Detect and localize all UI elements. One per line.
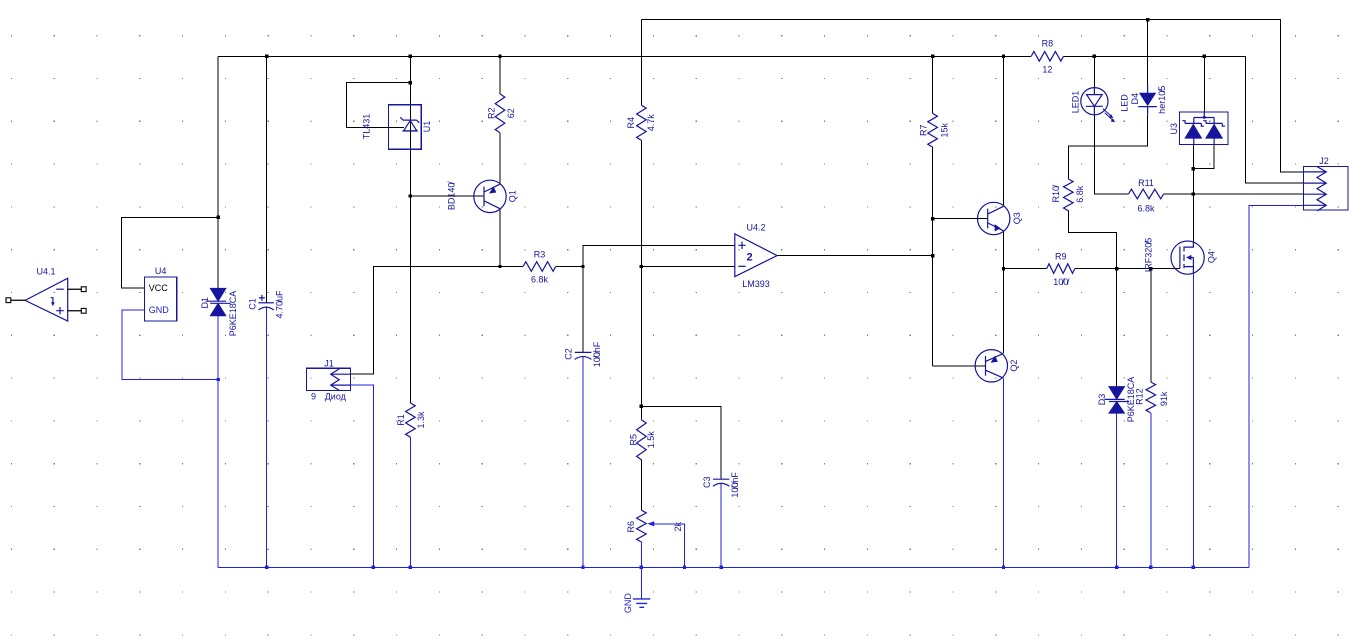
svg-text:15k: 15k bbox=[939, 122, 949, 137]
wire R2 bottom to Q1 emitter bbox=[499, 133, 501, 184]
wire rail corner down to D1 anode bbox=[217, 56, 219, 288]
potentiometer R6 2k bbox=[626, 510, 683, 542]
junction wiper/ground rail bbox=[683, 566, 686, 569]
connector J1 (9 Diode) bbox=[306, 358, 350, 401]
resistor R12 91k bbox=[1134, 382, 1169, 413]
wire R7 bottom to Q3 base node bbox=[932, 147, 934, 219]
svg-text:10̸0̸nF: 10̸0̸nF bbox=[592, 341, 602, 367]
junction C1/ground rail bbox=[265, 566, 268, 569]
wire output node to Q2 collector bbox=[1003, 269, 1005, 353]
capacitor C2 100nF bbox=[564, 341, 602, 367]
wire rail after R8 to J2 pin2 bbox=[1064, 56, 1304, 183]
svg-text:6.8k: 6.8k bbox=[531, 275, 549, 285]
wire R9 right to Q4 gate bbox=[1075, 268, 1180, 270]
wire gate node down to R12 bbox=[1150, 269, 1152, 382]
svg-text:D3: D3 bbox=[1097, 394, 1107, 406]
wire R1 bottom to ground rail bbox=[409, 437, 411, 567]
junction C3/ground rail bbox=[719, 566, 722, 569]
svg-text:10̸0̸nF: 10̸0̸nF bbox=[730, 472, 740, 498]
junction R1/ground rail bbox=[409, 566, 412, 569]
comparator U4.2 LM393 bbox=[735, 222, 777, 289]
dual schottky diode U3 bbox=[1169, 112, 1228, 144]
svg-text:BD140̸: BD140̸ bbox=[446, 181, 456, 211]
wire drain node to J2 pin3 bbox=[1193, 193, 1303, 195]
svg-text:62: 62 bbox=[506, 108, 516, 118]
svg-text:LED1: LED1 bbox=[1071, 91, 1081, 114]
connector J2 bbox=[1303, 156, 1348, 211]
wire node to R9 left bbox=[1004, 268, 1047, 270]
wire J1 pin2 to ground rail bbox=[351, 385, 374, 567]
diode D4 her105 bbox=[1120, 85, 1167, 115]
svg-text:10̸0̸: 10̸0̸ bbox=[1053, 277, 1070, 287]
svg-text:Q4: Q4 bbox=[1206, 251, 1216, 263]
wire R4 bottom to - input node bbox=[640, 140, 642, 266]
resistor R10 6.8k bbox=[1051, 179, 1085, 211]
svg-text:D1: D1 bbox=[200, 297, 210, 309]
LED LED1 bbox=[1071, 88, 1116, 123]
junction rail/LED1 bbox=[1093, 55, 1096, 58]
svg-text:R1: R1 bbox=[396, 414, 406, 426]
wire D4 cathode over to R10 top bbox=[1068, 115, 1147, 179]
wire R10 bottom to gate node bbox=[1068, 211, 1116, 269]
wire node down to C2 top bbox=[582, 267, 584, 353]
junction rail/R2 bbox=[498, 55, 501, 58]
junction R12 gate node bbox=[1149, 267, 1152, 270]
wire ground rail up to J2 pin4 bbox=[1249, 205, 1303, 567]
wire node to Q3 base bbox=[933, 218, 988, 220]
svg-text:her10̸5: her10̸5 bbox=[1157, 86, 1167, 114]
resistor R1 1.3k bbox=[396, 403, 426, 437]
svg-text:1.3k: 1.3k bbox=[416, 411, 426, 429]
IC power block U4 bbox=[144, 266, 176, 321]
svg-text:U4.1: U4.1 bbox=[36, 266, 55, 276]
svg-text:R11: R11 bbox=[1138, 178, 1154, 188]
resistor R2 62 bbox=[487, 94, 517, 133]
junction TL431/Q1 base bbox=[409, 194, 412, 197]
junction U4 GND/D1 ground bbox=[216, 378, 219, 381]
capacitor C3 100nF bbox=[702, 472, 740, 498]
wire Q3 emitter to output node bbox=[1003, 231, 1005, 268]
junction Q3 base node bbox=[931, 217, 934, 220]
wire J1 pin1 up to R3 left node bbox=[351, 267, 524, 375]
wire top rail to D4 anode bbox=[1147, 20, 1149, 85]
junction top rail/D4 bbox=[1146, 18, 1149, 21]
wire C3 bottom to ground rail bbox=[720, 483, 722, 567]
junction D3/ground rail bbox=[1115, 566, 1118, 569]
svg-text:U1: U1 bbox=[422, 121, 432, 133]
wire top rail corner down to R4 top bbox=[640, 20, 642, 106]
junction R6/GND symbol bbox=[640, 566, 643, 569]
wire to Q2 base bbox=[933, 365, 986, 367]
wire U4 GND pin to ground net bbox=[122, 310, 218, 379]
svg-text:U4.2: U4.2 bbox=[746, 222, 765, 232]
wire rail to Q3 collector bbox=[1003, 56, 1005, 206]
wire D1 cathode down to ground rail bbox=[217, 316, 219, 567]
svg-text:J2: J2 bbox=[1319, 156, 1329, 166]
wire U3 right anode to node bbox=[1193, 144, 1214, 168]
junction rail/U3 bbox=[1203, 55, 1206, 58]
wire R11 right to drain node bbox=[1164, 193, 1194, 195]
junction comparator output bbox=[931, 254, 934, 257]
junction TL431 ref bbox=[409, 81, 412, 84]
junction Q2/ground rail bbox=[1002, 566, 1005, 569]
junction J1/ground rail bbox=[372, 566, 375, 569]
junction R10/D3 gate node bbox=[1115, 267, 1118, 270]
transistor Q3 bbox=[978, 202, 1022, 234]
svg-text:6.8k: 6.8k bbox=[1137, 203, 1155, 213]
junction rail/R7 bbox=[931, 55, 934, 58]
junction rail/Q3 collector bbox=[1002, 55, 1005, 58]
wire rail down to C1 plus plate bbox=[266, 56, 268, 302]
svg-text:U3: U3 bbox=[1169, 123, 1179, 135]
wire U3 anode node down to Q4 drain bbox=[1192, 144, 1194, 241]
svg-text:Q1: Q1 bbox=[507, 190, 517, 202]
wire ground rail to GND symbol bbox=[640, 567, 642, 599]
svg-text:IRF320̸5: IRF320̸5 bbox=[1143, 238, 1153, 273]
svg-text:U4: U4 bbox=[155, 266, 167, 276]
svg-text:C1: C1 bbox=[247, 298, 257, 310]
junction R12/ground rail bbox=[1149, 566, 1152, 569]
svg-text:9: 9 bbox=[311, 391, 316, 401]
svg-text:LED: LED bbox=[1120, 94, 1130, 112]
wire node up to comparator + input bbox=[583, 245, 735, 266]
svg-text:91k: 91k bbox=[1159, 391, 1169, 406]
svg-text:C2: C2 bbox=[564, 348, 574, 360]
svg-text:2k: 2k bbox=[673, 522, 683, 532]
junction U3 anodes bbox=[1192, 167, 1195, 170]
wire TL431 node to Q1 base bbox=[410, 195, 484, 197]
wire node to C3 top bbox=[641, 406, 721, 479]
svg-text:GND: GND bbox=[623, 593, 633, 614]
svg-text:Диод: Диод bbox=[325, 391, 347, 401]
svg-text:C3: C3 bbox=[702, 477, 712, 489]
svg-text:R3: R3 bbox=[534, 250, 546, 260]
TVS diode D3 P6KE18CA bbox=[1097, 377, 1136, 423]
wire comparator output to R7 net bbox=[777, 255, 933, 257]
transistor Q1 BD140 bbox=[446, 180, 517, 212]
svg-text:12: 12 bbox=[1042, 64, 1052, 74]
svg-text:6.8k: 6.8k bbox=[1075, 185, 1085, 203]
wire LED1 cathode down to R11 left bbox=[1094, 115, 1128, 194]
junction Q3/Q2/R9 bbox=[1002, 267, 1005, 270]
transistor Q2 bbox=[975, 350, 1019, 382]
wire D3 bottom to ground rail bbox=[1116, 413, 1118, 567]
svg-text:LM393: LM393 bbox=[742, 279, 770, 289]
svg-text:R9: R9 bbox=[1055, 252, 1067, 262]
wire node to R5 top bbox=[640, 406, 642, 419]
TVS diode D1 P6KE18CA bbox=[200, 288, 238, 336]
resistor R4 4.7k bbox=[626, 105, 656, 140]
resistor R7 15k bbox=[918, 113, 949, 147]
svg-text:R7: R7 bbox=[918, 124, 928, 136]
wire top rail (R4 top / D4 / J2 pin1 net) bbox=[641, 20, 1303, 172]
junction rail/C1 bbox=[265, 55, 268, 58]
wire ground rail bbox=[218, 566, 1249, 568]
wire - node down to R5/C3 node bbox=[640, 267, 642, 407]
svg-text:J1: J1 bbox=[324, 358, 334, 368]
svg-text:R2: R2 bbox=[487, 108, 497, 120]
resistor R11 6.8k bbox=[1129, 178, 1164, 214]
wire rail through TL431 down to R1 top bbox=[409, 56, 411, 403]
wire rail to R7 top bbox=[932, 56, 934, 113]
junction D1/VCC bbox=[216, 216, 219, 219]
svg-text:Q2: Q2 bbox=[1009, 360, 1019, 372]
svg-text:Q3: Q3 bbox=[1012, 212, 1022, 224]
svg-text:R8: R8 bbox=[1042, 38, 1054, 48]
svg-text:R12: R12 bbox=[1134, 388, 1144, 405]
resistor R8 12 bbox=[1031, 38, 1063, 74]
junction R3/C2/+input bbox=[581, 265, 584, 268]
svg-text:P6KE18CA: P6KE18CA bbox=[228, 291, 238, 337]
wire R12 bottom to ground rail bbox=[1150, 413, 1152, 567]
ground GND symbol bbox=[623, 593, 650, 614]
svg-text:D4: D4 bbox=[1130, 93, 1140, 105]
svg-text:1.5k: 1.5k bbox=[646, 431, 656, 449]
wire R4 node to comparator - input bbox=[641, 266, 734, 268]
wire C2 bottom to ground rail bbox=[582, 356, 584, 567]
junction rail/TL431 bbox=[409, 55, 412, 58]
wire Q4 source to ground rail bbox=[1192, 274, 1194, 567]
svg-text:4.70̸uF: 4.70̸uF bbox=[275, 290, 285, 319]
wire down comparator-out column bbox=[932, 219, 934, 366]
junction Q4 source/ground rail bbox=[1192, 566, 1195, 569]
junction C2/ground rail bbox=[581, 566, 584, 569]
svg-text:R4: R4 bbox=[626, 117, 636, 129]
svg-text:2: 2 bbox=[746, 252, 752, 264]
svg-text:TL431: TL431 bbox=[361, 114, 371, 140]
wire R6 wiper to ground rail bbox=[652, 524, 684, 568]
capacitor C1 4.70uF bbox=[247, 290, 284, 319]
resistor R5 1.5k bbox=[628, 420, 656, 460]
wire TL431 ref feedback loop bbox=[346, 83, 410, 128]
wire rail to U3 common cathode pin bbox=[1203, 56, 1205, 112]
svg-text:R5: R5 bbox=[628, 434, 638, 446]
wire C1 minus to ground rail bbox=[266, 306, 268, 567]
junction R11/J2 pin3/drain bbox=[1192, 192, 1195, 195]
wire R3 right to node bbox=[556, 266, 583, 268]
resistor R3 6.8k bbox=[523, 250, 556, 285]
wire rail to LED1 anode bbox=[1093, 56, 1095, 87]
wire U4 VCC pin to D1 net bbox=[122, 217, 219, 288]
wire Q2 emitter to ground rail bbox=[1003, 379, 1005, 568]
wire Q1 collector down to node bbox=[499, 209, 501, 267]
MOSFET Q4 IRF3205 bbox=[1143, 238, 1216, 274]
junction R4/-input bbox=[640, 265, 643, 268]
svg-text:R10̸: R10̸ bbox=[1051, 184, 1061, 203]
wire R6 bottom to ground rail bbox=[640, 542, 642, 567]
svg-text:4.7k: 4.7k bbox=[646, 114, 656, 132]
resistor R9 100 bbox=[1047, 252, 1075, 288]
svg-text:VCC: VCC bbox=[149, 283, 169, 293]
wire R5 bottom to R6 top bbox=[640, 460, 642, 511]
op-amp U4.1 bbox=[6, 266, 86, 321]
shunt regulator U1 TL431 bbox=[361, 105, 432, 150]
junction R5/C3 bbox=[640, 405, 643, 408]
svg-text:GND: GND bbox=[149, 305, 170, 315]
svg-text:R6: R6 bbox=[626, 521, 636, 533]
wire VCC rail left section bbox=[218, 55, 1031, 57]
wire rail to R2 top bbox=[499, 56, 501, 94]
wire gate node down to D3 bbox=[1116, 269, 1118, 387]
junction Q1/R3 node bbox=[498, 265, 501, 268]
